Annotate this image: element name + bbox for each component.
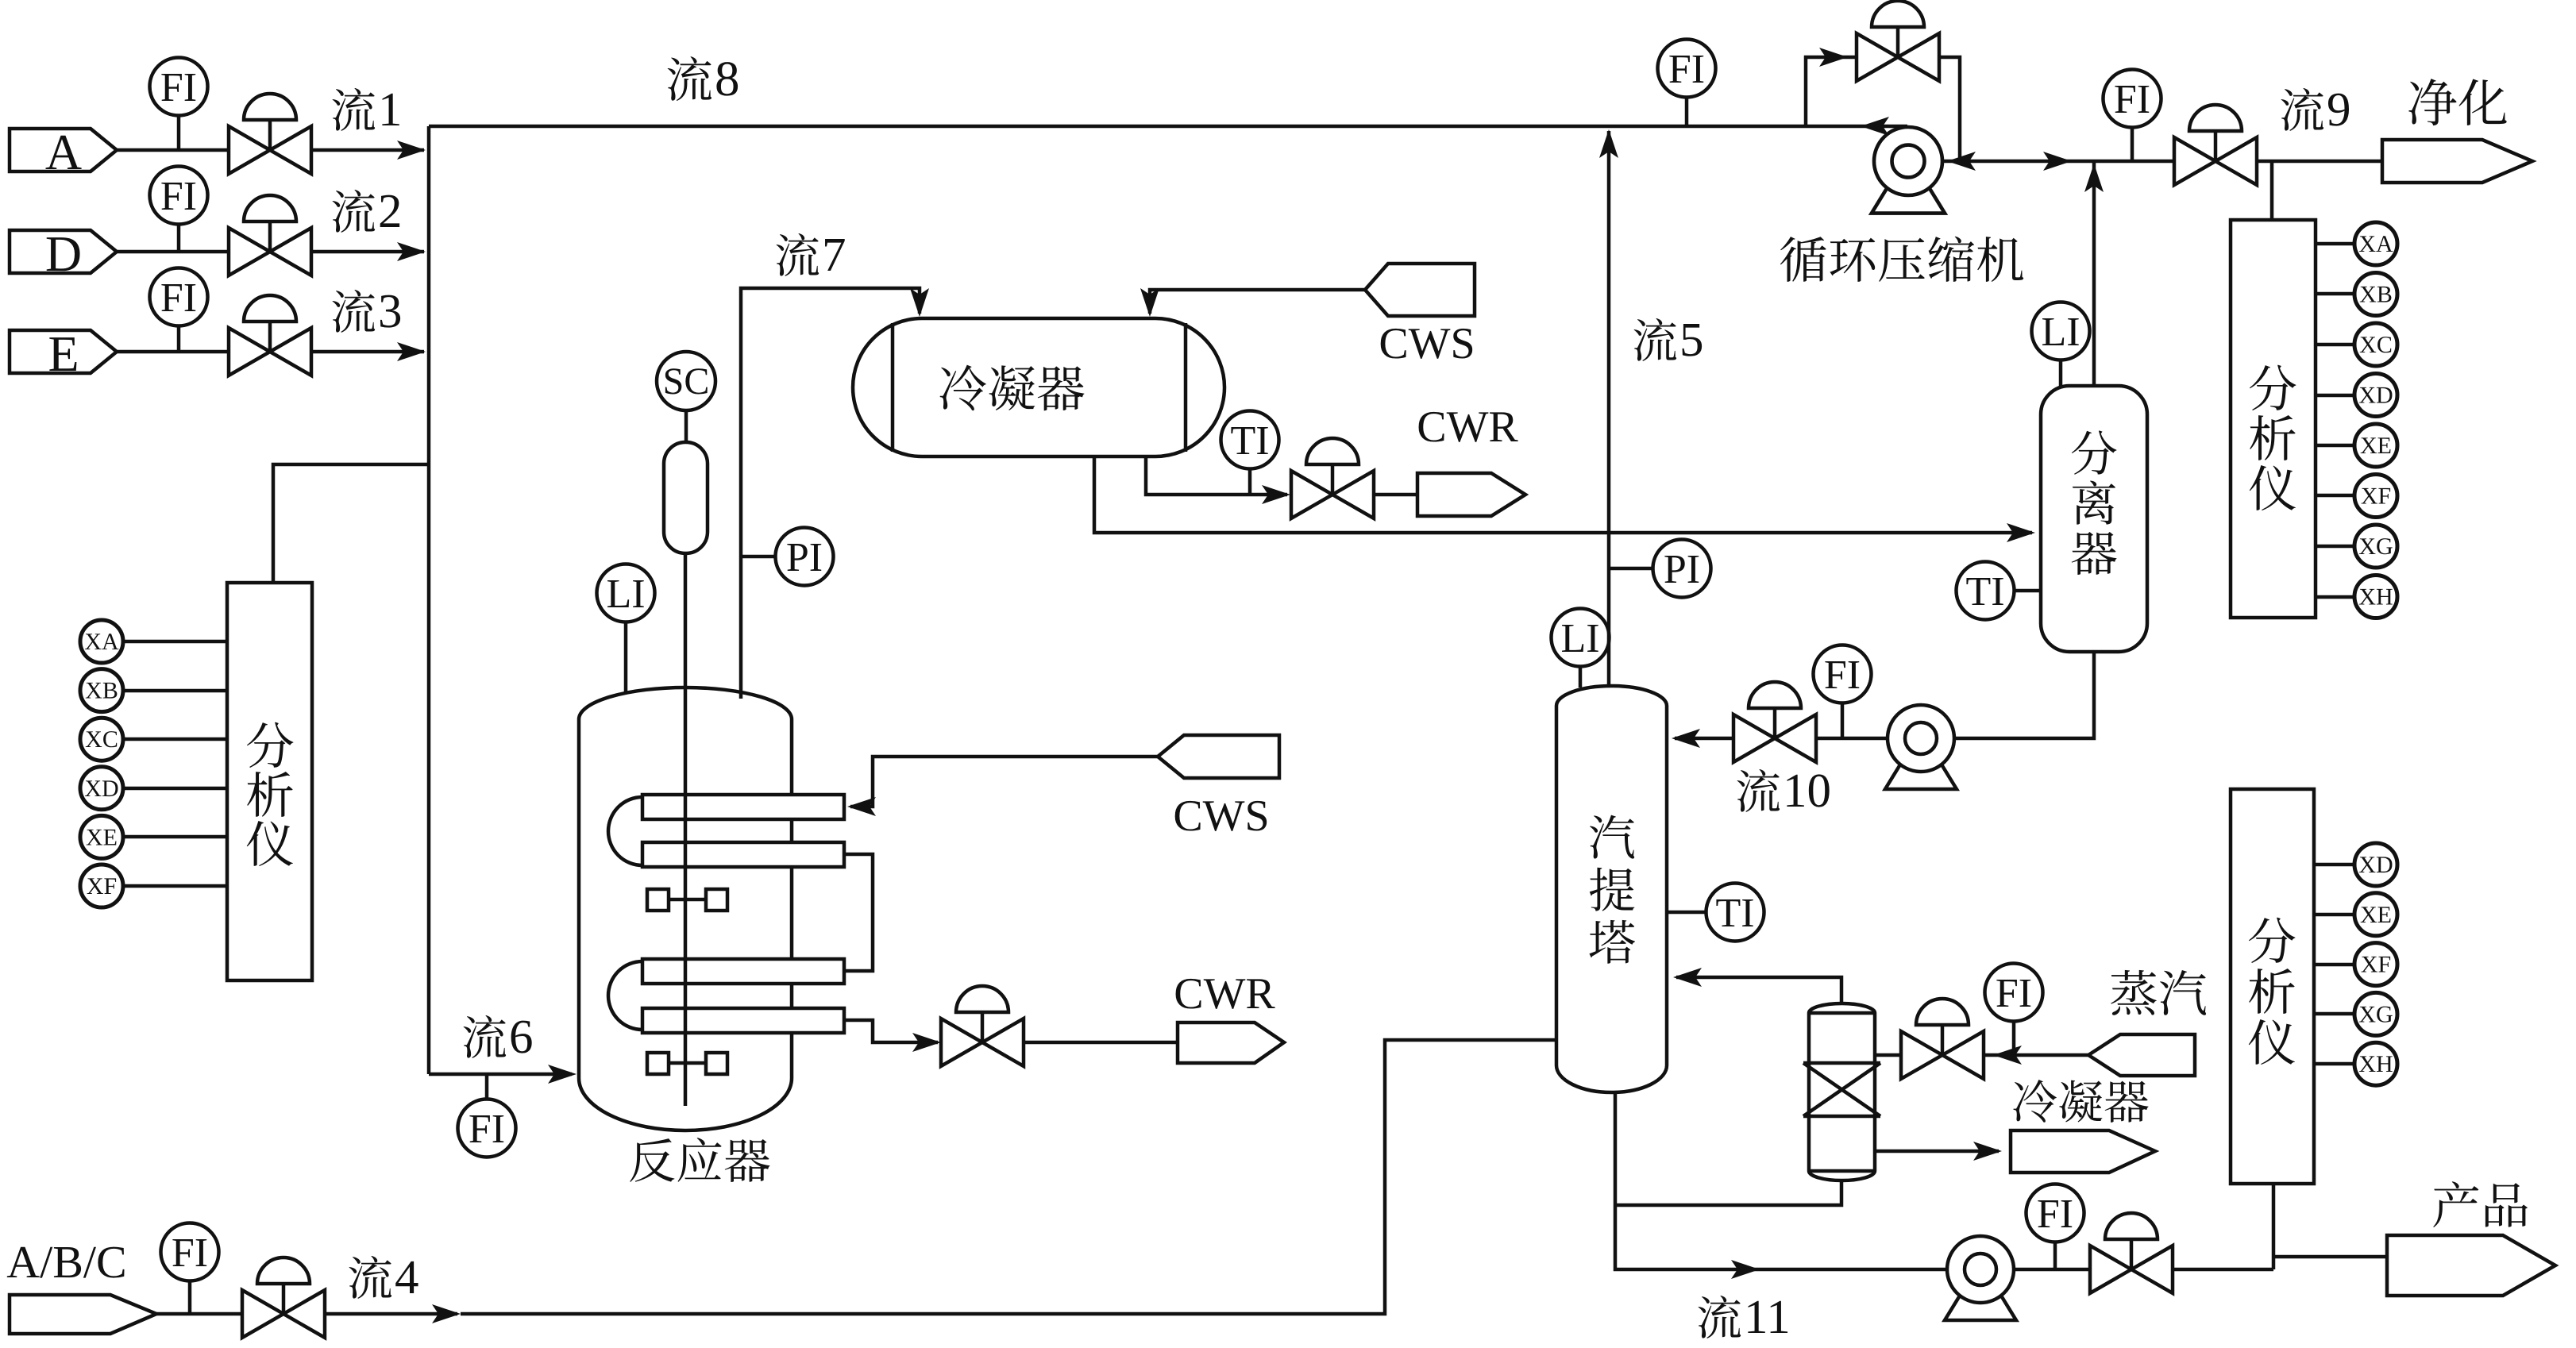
svg-text:XC: XC bbox=[2359, 332, 2393, 358]
svg-text:XC: XC bbox=[85, 726, 118, 753]
svg-text:8: 8 bbox=[715, 51, 740, 106]
svg-text:XE: XE bbox=[2360, 433, 2392, 459]
svg-text:10: 10 bbox=[1783, 765, 1831, 818]
svg-text:FI: FI bbox=[160, 65, 197, 110]
svg-text:A: A bbox=[45, 124, 82, 180]
svg-text:FI: FI bbox=[2114, 77, 2150, 122]
svg-text:XD: XD bbox=[2358, 383, 2393, 409]
svg-text:XD: XD bbox=[2358, 852, 2393, 878]
svg-text:LI: LI bbox=[606, 572, 645, 617]
svg-text:PI: PI bbox=[786, 535, 823, 580]
svg-text:LI: LI bbox=[1560, 616, 1599, 661]
svg-text:2: 2 bbox=[378, 185, 403, 238]
svg-text:CWR: CWR bbox=[1417, 402, 1518, 452]
svg-text:3: 3 bbox=[378, 285, 403, 338]
svg-text:TI: TI bbox=[1715, 891, 1754, 936]
svg-text:1: 1 bbox=[378, 83, 403, 137]
svg-text:A/B/C: A/B/C bbox=[6, 1236, 127, 1288]
svg-text:XA: XA bbox=[84, 629, 119, 655]
svg-text:CWS: CWS bbox=[1173, 791, 1269, 841]
svg-text:XH: XH bbox=[2358, 584, 2393, 610]
svg-text:FI: FI bbox=[469, 1107, 505, 1152]
svg-text:FI: FI bbox=[172, 1231, 208, 1276]
svg-text:LI: LI bbox=[2041, 310, 2080, 355]
svg-text:TI: TI bbox=[1965, 569, 2004, 614]
svg-text:11: 11 bbox=[1744, 1291, 1791, 1344]
svg-text:XG: XG bbox=[2358, 1001, 2393, 1027]
svg-text:FI: FI bbox=[160, 275, 197, 321]
svg-text:XD: XD bbox=[84, 776, 118, 802]
svg-text:CWR: CWR bbox=[1174, 969, 1275, 1019]
svg-text:PI: PI bbox=[1664, 547, 1700, 592]
svg-text:XF: XF bbox=[2361, 483, 2391, 510]
svg-text:5: 5 bbox=[1679, 314, 1704, 367]
svg-text:XA: XA bbox=[2358, 231, 2393, 257]
svg-text:XB: XB bbox=[85, 678, 118, 704]
svg-text:XF: XF bbox=[2361, 952, 2391, 978]
svg-text:FI: FI bbox=[1668, 47, 1705, 92]
svg-text:FI: FI bbox=[1824, 653, 1861, 698]
svg-text:XH: XH bbox=[2358, 1051, 2393, 1077]
svg-text:6: 6 bbox=[509, 1011, 534, 1064]
svg-text:FI: FI bbox=[1996, 971, 2032, 1016]
svg-text:7: 7 bbox=[822, 229, 846, 282]
svg-text:E: E bbox=[48, 325, 79, 382]
svg-text:XE: XE bbox=[2360, 902, 2392, 928]
svg-text:XB: XB bbox=[2359, 282, 2393, 308]
svg-text:SC: SC bbox=[663, 360, 710, 402]
svg-text:XF: XF bbox=[87, 873, 117, 899]
svg-text:9: 9 bbox=[2327, 83, 2351, 137]
svg-text:CWS: CWS bbox=[1379, 319, 1475, 368]
svg-text:TI: TI bbox=[1230, 418, 1269, 464]
svg-text:XG: XG bbox=[2358, 533, 2393, 560]
svg-text:XE: XE bbox=[86, 824, 118, 850]
svg-text:4: 4 bbox=[395, 1251, 419, 1304]
svg-text:FI: FI bbox=[2037, 1192, 2073, 1237]
svg-text:D: D bbox=[45, 225, 82, 282]
svg-text:FI: FI bbox=[160, 174, 197, 219]
